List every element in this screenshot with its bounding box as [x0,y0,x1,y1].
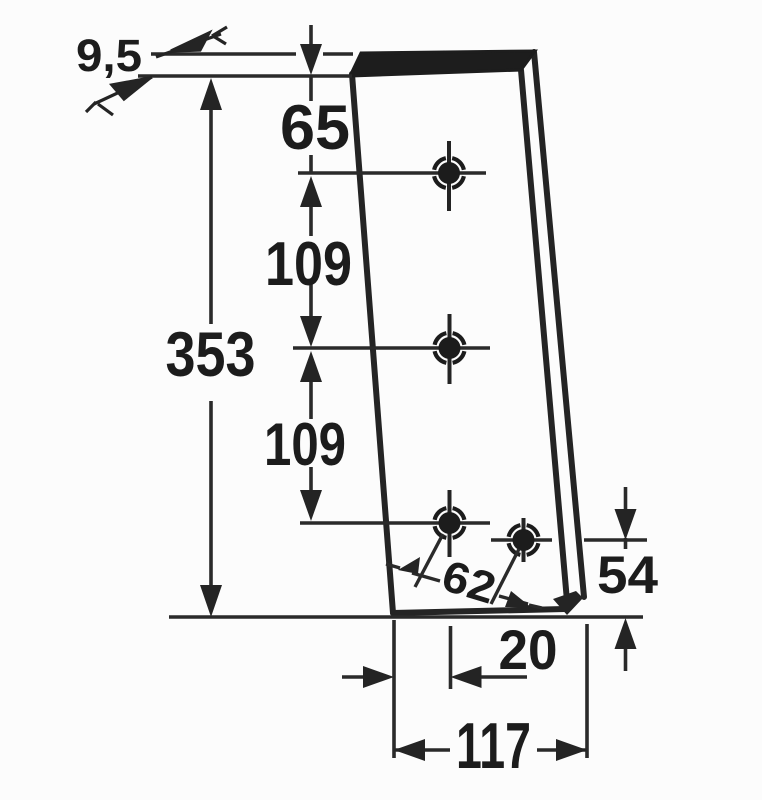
svg-text:117: 117 [456,709,531,782]
svg-text:54: 54 [597,546,659,605]
svg-text:353: 353 [166,320,256,390]
svg-text:109: 109 [265,230,352,299]
svg-text:109: 109 [264,411,346,478]
svg-text:65: 65 [280,93,350,163]
svg-text:9,5: 9,5 [76,30,142,81]
svg-text:20: 20 [499,618,558,681]
